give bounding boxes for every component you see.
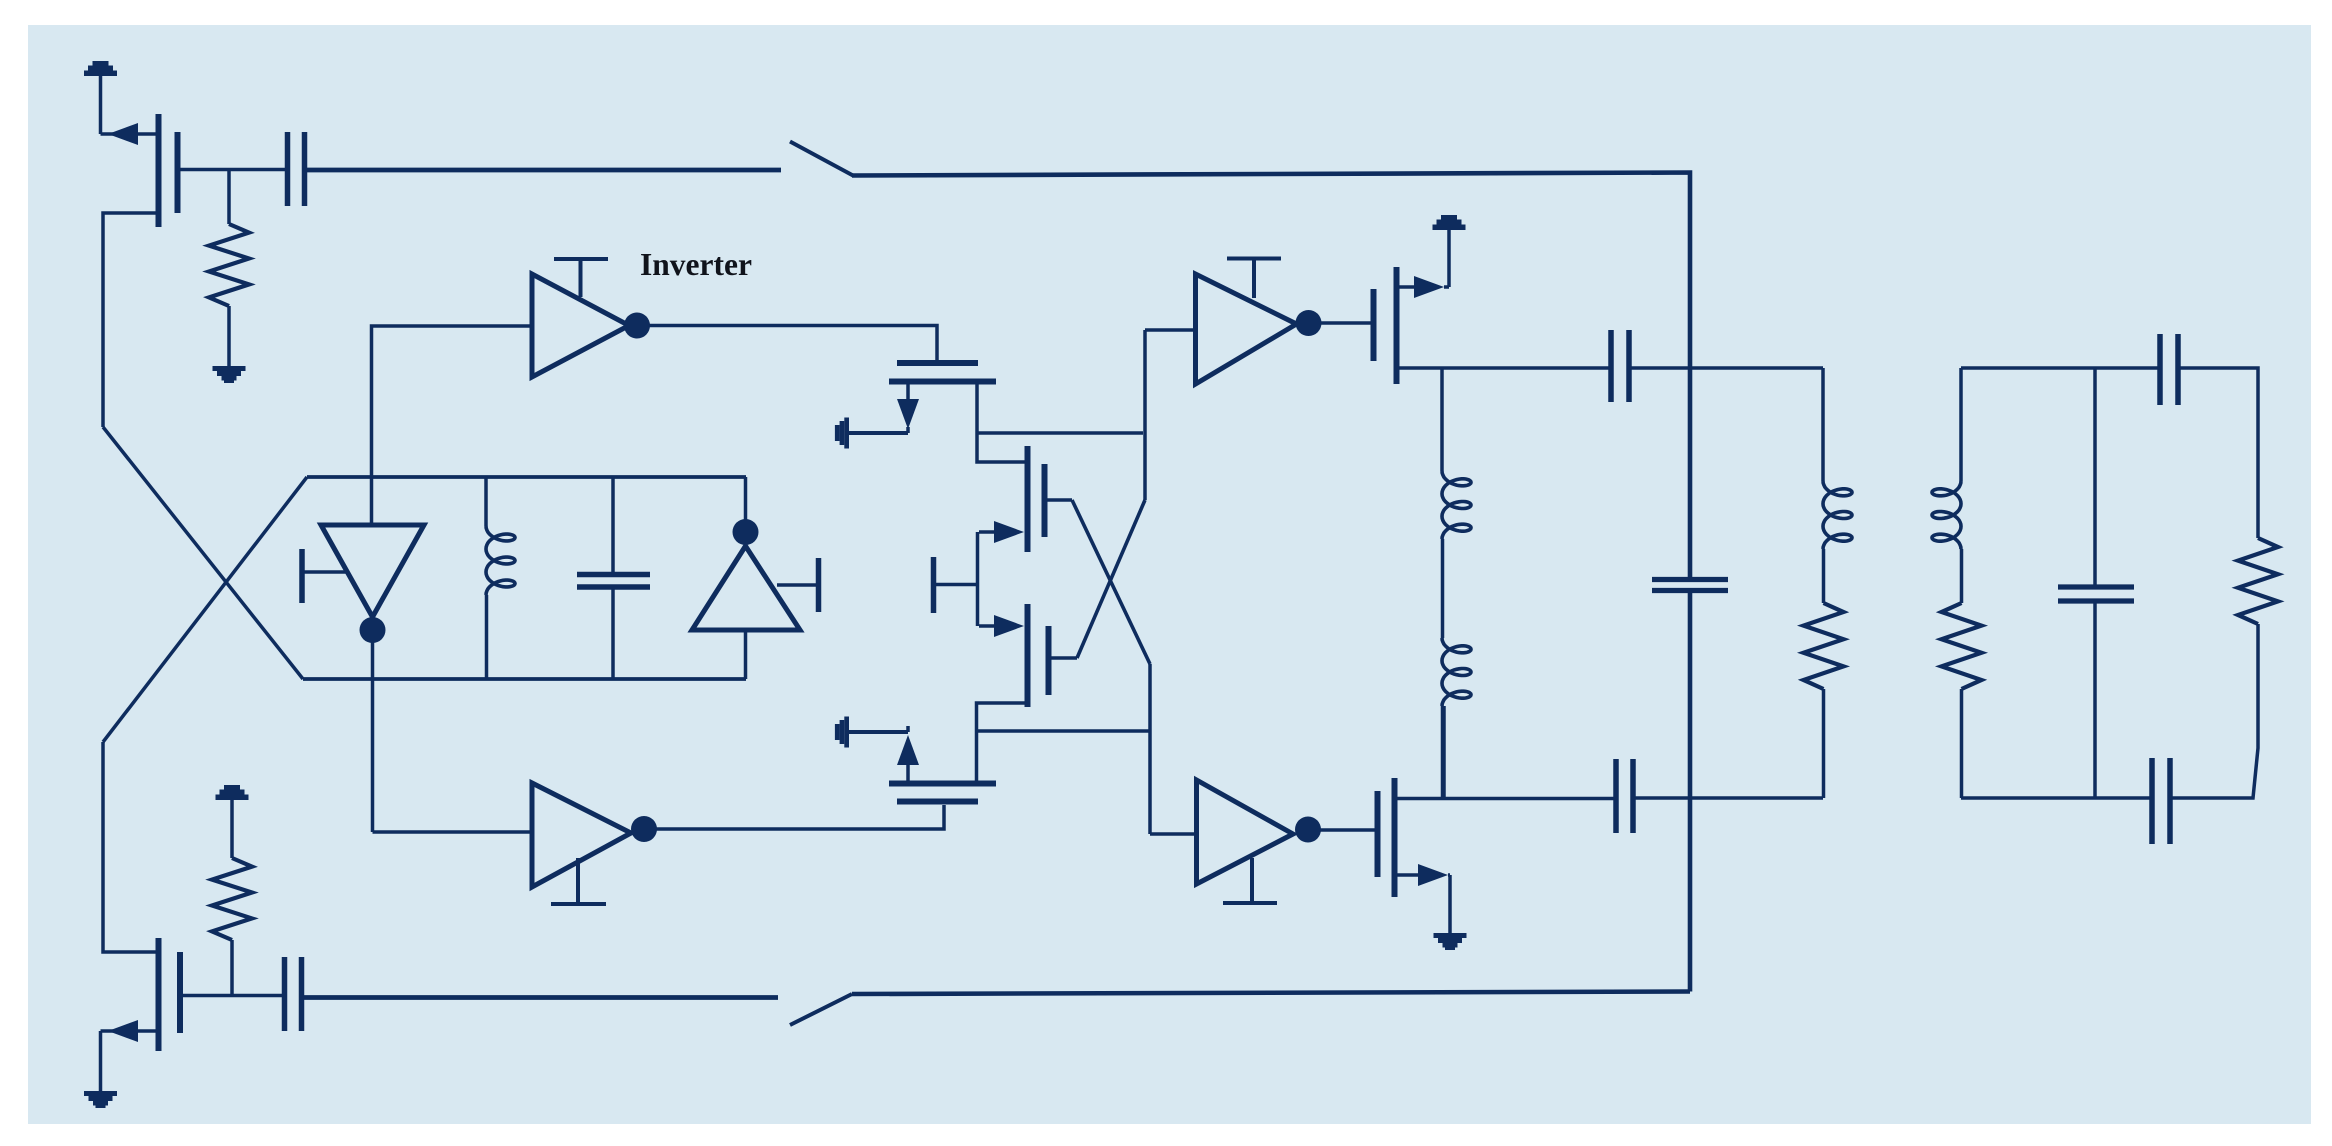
- M3 left leg arrow: [906, 384, 910, 420]
- wire load1 mid: [1822, 549, 1826, 603]
- wire net2 left mid: [1960, 549, 1964, 603]
- wire top rail to load: [1631, 366, 1823, 370]
- op-amp INV4: [532, 783, 631, 887]
- svg-text:Inverter: Inverter: [640, 247, 752, 282]
- wire M7 drain up: [1442, 706, 1446, 798]
- wire net2 left bottom: [1960, 689, 1964, 798]
- wire C6 bottom lead: [2093, 603, 2097, 798]
- varactor V1 gate: [299, 549, 305, 603]
- node INV1 out dot: [624, 313, 650, 339]
- wire C2 top lead: [611, 477, 615, 572]
- op-amp INV2: [1196, 274, 1297, 384]
- wire INV4 out: [656, 805, 944, 829]
- varactor V1 triangle: [321, 525, 424, 617]
- transistor M4: [1025, 446, 1031, 552]
- capacitor C6: [2058, 584, 2134, 589]
- wire cross diag4: [1077, 500, 1145, 658]
- transistor M6 channel bar: [889, 781, 996, 787]
- INV1 supply tee: [554, 257, 608, 261]
- wire net2 top rail: [1961, 366, 2158, 370]
- wire box bottom edge: [303, 677, 746, 681]
- capacitor C2b: [282, 957, 288, 1031]
- wire top rail left: [306, 168, 781, 173]
- wire cross diag2: [103, 477, 307, 742]
- wire INV1 input: [372, 326, 533, 525]
- INV4 supply tee: [576, 858, 580, 904]
- wire L2 bottom lead: [1441, 706, 1445, 797]
- capacitor C4: [1613, 759, 1619, 833]
- inductor L2b: [1442, 638, 1471, 706]
- wire net2 left top: [1959, 368, 1963, 481]
- wire M7 source down: [1448, 875, 1452, 933]
- M7 source arrow: [1397, 873, 1420, 877]
- inductor L2a: [1442, 471, 1471, 539]
- op-amp INV3: [1197, 780, 1294, 884]
- transistor M7: [1375, 791, 1381, 877]
- wire M2 drain: [103, 742, 158, 952]
- resistor R4: [1942, 603, 1982, 689]
- node A dot: [360, 617, 386, 643]
- varactor V2 triangle: [692, 546, 800, 630]
- wire cross diag3: [1072, 500, 1150, 664]
- wire M8 source up: [1447, 230, 1451, 287]
- INV3 supply tee: [1250, 858, 1254, 903]
- wire tail vertical: [976, 532, 980, 626]
- ground GND1: [213, 366, 246, 371]
- resistor R2: [212, 858, 252, 940]
- wire M5 bottom: [977, 703, 1028, 781]
- wire INV3 input: [1150, 832, 1197, 836]
- M6 left leg arrow: [906, 744, 910, 781]
- resistor R1: [227, 170, 231, 225]
- capacitor C8: [2149, 758, 2155, 844]
- transistor M3 gate bar: [897, 360, 978, 366]
- wire INV2 out: [1320, 321, 1372, 325]
- node INV3 out dot: [1295, 817, 1321, 843]
- capacitor C1: [285, 132, 291, 206]
- wire INV2 input: [1145, 328, 1195, 332]
- inductor L1 top lead: [484, 477, 488, 526]
- wire M2 source-gnd: [99, 1031, 103, 1091]
- node INV4 out dot: [631, 816, 657, 842]
- M3 bulk arrow: [847, 431, 908, 435]
- transistor M6 gate bar: [897, 799, 978, 805]
- wire M2 gate: [182, 994, 283, 998]
- capacitor C5: [1652, 577, 1728, 582]
- capacitor C2: [577, 572, 650, 578]
- inductor L1: [486, 526, 515, 595]
- wire V2 down: [744, 630, 748, 679]
- resistor R5: [2238, 538, 2278, 624]
- wire cross diag1: [103, 427, 303, 679]
- capacitor C7: [2157, 334, 2163, 405]
- transistor M8: [1371, 289, 1377, 361]
- wire INV4 input: [373, 830, 533, 834]
- wire M3 to cross: [977, 431, 1143, 435]
- inductor L3: [1823, 481, 1852, 549]
- M6 bulk arrow: [847, 730, 908, 734]
- M8 source arrow: [1399, 285, 1418, 289]
- transistor M3 channel bar: [889, 379, 996, 385]
- inductor L4: [1932, 481, 1961, 549]
- wire INV1 out: [649, 326, 937, 361]
- wire M1 drain: [103, 213, 158, 427]
- wire net2 top right: [2180, 368, 2258, 538]
- power VDD2: [224, 785, 240, 790]
- wire to INV2: [1143, 330, 1147, 500]
- wire load1 top: [1821, 368, 1825, 481]
- transistor M2: [156, 938, 162, 1051]
- INV2 supply tee: [1227, 257, 1281, 261]
- wire L2 mid: [1441, 539, 1445, 638]
- wire C6 top lead: [2093, 368, 2097, 585]
- wire load1 bottom: [1822, 689, 1826, 798]
- ground GND3: [1434, 933, 1467, 938]
- wire C2 bottom lead: [611, 589, 615, 679]
- wire node B up: [744, 477, 748, 522]
- inductor L1 bottom lead: [485, 595, 489, 679]
- wire L2 top lead: [1440, 368, 1444, 471]
- wire M8 drain: [1399, 366, 1609, 370]
- tail gate: [931, 557, 937, 613]
- resistor R3: [1804, 603, 1844, 689]
- power VDD3: [1441, 215, 1457, 220]
- varactor V2 gate: [816, 558, 822, 612]
- node B dot: [733, 519, 759, 545]
- transistor M5: [1025, 604, 1031, 707]
- wire box top edge: [307, 475, 746, 479]
- node INV2 out dot: [1296, 310, 1322, 336]
- power VDD1: [93, 61, 109, 66]
- ground GND2: [84, 1091, 117, 1096]
- capacitor C3: [1608, 330, 1614, 402]
- transistor M1: [156, 114, 162, 227]
- wire net2 right bottom: [2172, 624, 2258, 798]
- switch SW2: [790, 994, 852, 1025]
- wire M3 right leg: [977, 384, 1029, 462]
- wire top rail right: [852, 173, 1690, 578]
- switch SW1: [790, 142, 853, 176]
- wire net2 bottom rail: [1961, 796, 2150, 800]
- wire right vertical lower: [1688, 593, 1693, 992]
- wire bottom rail left: [304, 995, 778, 1000]
- wire to INV3: [1148, 664, 1152, 834]
- op-amp INV1: [532, 274, 629, 377]
- wire bottom rail right: [852, 992, 1690, 995]
- wire M7 drain: [1397, 797, 1614, 801]
- wire bottom rail to load: [1635, 796, 1823, 800]
- wire bottom link: [976, 729, 1150, 733]
- wire INV3 out: [1320, 828, 1375, 832]
- wire M1 gate: [180, 168, 286, 172]
- wire node A down: [371, 617, 375, 832]
